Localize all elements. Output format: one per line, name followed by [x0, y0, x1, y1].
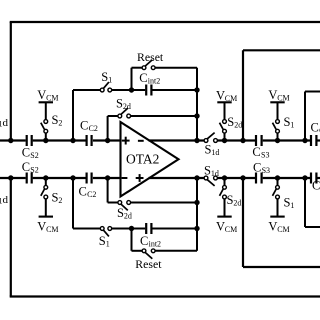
svg-text:CM: CM — [225, 225, 237, 234]
svg-text:C: C — [79, 185, 87, 199]
wire: bottom output (OTA to S1d) — [149, 177, 205, 179]
wire: C_int2 to output node (top) — [153, 89, 198, 91]
capacitor C_int2 (top) — [145, 85, 147, 96]
wire: top feedback wire to S1 — [73, 89, 100, 91]
wire: S2 bottom to VCM bar — [45, 199, 47, 217]
capacitor C_S3 (top) — [255, 135, 257, 146]
capacitor C_S2 (bottom) — [26, 173, 28, 184]
wire: S2d to VCM bar (top output) — [224, 102, 226, 119]
VCM terminal bar (bottom middle) — [217, 216, 231, 218]
svg-text:V: V — [268, 220, 277, 234]
wire: S1 to C_int2 (bottom) — [112, 228, 146, 230]
wire: next-stage feedback top (vertical) — [304, 92, 306, 141]
wire: bottom Reset wire left — [132, 250, 143, 252]
capacitor C_C2 (bottom) — [85, 173, 87, 184]
svg-text:1: 1 — [106, 240, 110, 249]
VCM terminal bar (top middle) — [217, 101, 231, 103]
wire: vertical to top S1 feedback — [72, 90, 74, 141]
node: S2 top junction — [43, 138, 48, 143]
wire: bottom output (S1d to C_S3) — [217, 177, 255, 179]
svg-text:CM: CM — [225, 94, 237, 103]
svg-text:C: C — [312, 178, 320, 192]
switch S1 (bottom output, to VCM) — [276, 185, 280, 189]
svg-text:2: 2 — [58, 119, 62, 128]
svg-text:C: C — [80, 118, 88, 132]
VCM terminal bar (bottom left) — [39, 216, 53, 218]
switch S1 (bottom feedback) — [100, 227, 104, 231]
switch S2d (top, at OTA input) — [118, 114, 122, 118]
wire: S1 to VCM bar (top output) — [277, 102, 279, 119]
svg-text:C: C — [140, 234, 148, 248]
switch S2 (top) wire stub — [45, 133, 47, 140]
node: bottom S2d-VCM junction — [222, 175, 227, 180]
wire: bottom feedback wire to S1 — [73, 228, 100, 230]
switch Reset (bottom) — [142, 249, 146, 253]
node: top Reset branch junction — [129, 87, 134, 92]
capacitor C_C3 (bottom) — [310, 173, 312, 184]
svg-text:1d: 1d — [211, 148, 219, 157]
op-amp OTA2 + input sign — [122, 140, 130, 142]
svg-text:CM: CM — [277, 94, 289, 103]
node: top S1-VCM junction — [275, 138, 280, 143]
svg-text:int2: int2 — [149, 240, 161, 249]
svg-text:V: V — [37, 220, 46, 234]
svg-text:V: V — [216, 88, 225, 102]
wire: vertical to bottom S2d — [107, 178, 109, 203]
wire: bottom input wire (C_C2 to OTA - input) — [93, 177, 121, 179]
svg-text:CM: CM — [46, 94, 58, 103]
svg-text:2d: 2d — [233, 199, 241, 208]
node: top Reset-to-vertical junction — [194, 87, 199, 92]
node: top S2d-VCM junction — [222, 138, 227, 143]
wire: top input wire (C_S2 to C_C2) — [33, 139, 86, 141]
wire: bottom output (right edge) — [318, 177, 320, 179]
wire: top Reset wire right — [155, 67, 197, 69]
node: bottom Reset branch junction — [129, 226, 134, 231]
switch S1 (top output, to VCM) — [276, 120, 280, 124]
svg-text:Reset: Reset — [137, 50, 164, 64]
svg-text:2d: 2d — [124, 212, 132, 221]
svg-text:V: V — [268, 88, 277, 102]
svg-text:d: d — [3, 194, 9, 206]
wire: next-stage loop top (vertical) — [242, 50, 244, 140]
svg-text:S3: S3 — [261, 151, 269, 160]
node: bottom Reset-to-vertical junction — [194, 226, 199, 231]
svg-text:1: 1 — [290, 201, 294, 210]
switch S1 stub (bottom output) — [277, 178, 279, 185]
wire: vertical to top S2d — [107, 116, 109, 141]
wire: C_int2 to output node (bottom) — [153, 228, 198, 230]
svg-text:C: C — [252, 145, 260, 159]
switch S2d (bottom, at OTA input) — [118, 201, 122, 205]
capacitor C_C2 (top) — [85, 135, 87, 146]
wire: bottom S2d wire left — [108, 202, 118, 204]
node: bottom next-stage feedback junction — [302, 175, 307, 180]
svg-text:2d: 2d — [123, 102, 131, 111]
switch S2 (bottom) wire stub — [45, 178, 47, 185]
node: top S2d tap junction — [105, 138, 110, 143]
switch Reset (top) — [142, 66, 146, 70]
wire: next-stage loop bottom (horizontal) — [243, 266, 320, 268]
wire: top feedback rail — [10, 21, 320, 23]
VCM terminal bar (top left) — [39, 101, 53, 103]
wire: bottom input wire (C_S2 to C_C2) — [33, 177, 86, 179]
op-amp OTA2 top output - sign — [138, 140, 144, 142]
wire: next-stage feedback bottom (vertical) — [304, 178, 306, 227]
node: bottom feedback tap junction — [70, 175, 75, 180]
VCM terminal bar (top right) — [270, 101, 284, 103]
VCM terminal bar (bottom right) — [270, 216, 284, 218]
switch S2d (top output, to VCM) — [223, 120, 227, 124]
wire: top output (S1d to C_S3) — [217, 139, 255, 141]
svg-text:CM: CM — [277, 225, 289, 234]
wire: bottom input wire (left of C_S2) — [0, 177, 26, 179]
op-amp U1 OTA2 triangle — [121, 122, 179, 197]
capacitor C_S3 (bottom) — [255, 173, 257, 184]
wire: bottom S2d wire right — [131, 202, 197, 204]
node: top feedback tap junction — [70, 138, 75, 143]
wire: S2d to VCM bar (bottom output) — [224, 199, 226, 217]
wire: bottom output (C_S3 to C_C3) — [263, 177, 310, 179]
node: bottom S2d-to-vertical junction — [194, 200, 199, 205]
wire: top output (C_S3 to C_C3) — [263, 139, 310, 141]
node: top next-stage feedback junction — [302, 138, 307, 143]
switch S1 (top feedback) — [100, 88, 104, 92]
wire: next-stage loop top (horizontal) — [243, 49, 320, 51]
svg-text:C2: C2 — [87, 190, 96, 199]
svg-text:S3: S3 — [262, 166, 270, 175]
wire: S1 to C_int2 (top) — [112, 89, 146, 91]
svg-text:2: 2 — [58, 196, 62, 205]
node: bottom output feedback junction — [194, 175, 199, 180]
wire: left vertical from top rail to V+ input wire — [10, 22, 12, 141]
wire: bottom Reset branch vertical — [131, 229, 133, 251]
wire: top input wire (left of C_S2) — [0, 139, 26, 141]
svg-text:C: C — [311, 121, 319, 135]
wire: top S2d wire right — [131, 115, 197, 117]
wire: left vertical from V- input wire to bottom rail — [10, 178, 12, 297]
wire: S1 to VCM bar (bottom output) — [277, 199, 279, 217]
svg-text:CM: CM — [46, 225, 58, 234]
svg-text:Reset: Reset — [135, 257, 162, 271]
wire: bottom feedback rail — [10, 295, 320, 297]
wire: top Reset branch vertical — [131, 68, 133, 90]
svg-text:V: V — [37, 88, 46, 102]
svg-text:C: C — [22, 145, 30, 159]
switch S1d (bottom output) — [204, 176, 208, 180]
op-amp OTA2 - input sign — [122, 177, 128, 179]
wire: vertical to bottom S1 feedback — [72, 178, 74, 229]
svg-text:S2: S2 — [30, 165, 38, 174]
wire: bottom output feedback vertical — [196, 178, 198, 251]
switch S1 stub (top output) — [277, 133, 279, 140]
wire: S2 top to VCM bar — [45, 102, 47, 119]
svg-text:1: 1 — [290, 121, 294, 130]
node: bottom S1-VCM junction — [275, 175, 280, 180]
wire: top output (right edge) — [318, 139, 320, 141]
svg-text:C: C — [22, 160, 30, 174]
switch S2 (top) — [44, 120, 48, 124]
svg-text:C: C — [139, 71, 147, 85]
wire: top output feedback vertical — [196, 68, 198, 141]
wire: top output (OTA to S1d) — [149, 139, 205, 141]
svg-text:OTA2: OTA2 — [126, 152, 159, 167]
node: bottom S2d tap junction — [105, 175, 110, 180]
svg-text:1d: 1d — [211, 169, 219, 178]
switch S2 (bottom) — [44, 185, 48, 189]
switch S2d (bottom output, to VCM) — [223, 185, 227, 189]
switch S2d stub (bottom output) — [224, 178, 226, 185]
node: bottom next-stage branch junction — [240, 175, 245, 180]
switch S2d stub (top output) — [224, 133, 226, 140]
wire: next-stage feedback bottom (horizontal) — [305, 226, 320, 228]
node: top output feedback junction — [194, 138, 199, 143]
capacitor C_S2 (top) — [26, 135, 28, 146]
op-amp OTA2 bottom output + sign — [136, 177, 144, 179]
switch S1d (top output) — [204, 139, 208, 143]
wire: top Reset wire left — [132, 67, 143, 69]
node: junction of rail drop on V- input — [8, 175, 13, 180]
wire: top S2d wire left — [108, 115, 118, 117]
svg-text:d: d — [3, 117, 9, 129]
node: junction of rail drop on V+ input — [8, 138, 13, 143]
svg-text:S2: S2 — [30, 151, 38, 160]
node: S2 bottom junction — [43, 175, 48, 180]
capacitor C_int2 (bottom) — [145, 223, 147, 234]
wire: bottom Reset wire right — [155, 250, 197, 252]
wire: next-stage feedback top (horizontal) — [305, 91, 320, 93]
svg-text:C2: C2 — [89, 124, 98, 133]
node: top next-stage branch junction — [240, 138, 245, 143]
svg-text:V: V — [216, 220, 225, 234]
node: top S2d-to-vertical junction — [194, 113, 199, 118]
capacitor C_C3 (top) — [310, 135, 312, 146]
svg-text:2d: 2d — [234, 121, 242, 130]
wire: top input wire (C_C2 to OTA + input) — [93, 139, 121, 141]
wire: next-stage loop bottom (vertical) — [242, 178, 244, 267]
svg-text:1: 1 — [108, 76, 112, 85]
svg-text:C: C — [253, 160, 261, 174]
svg-text:int2: int2 — [148, 77, 160, 86]
